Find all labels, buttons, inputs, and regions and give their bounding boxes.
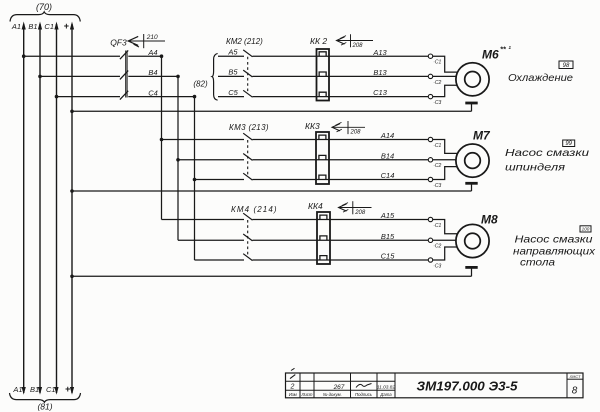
svg-text:+: + xyxy=(64,21,69,31)
svg-text:№ докум.: № докум. xyxy=(323,392,342,397)
svg-text:В4: В4 xyxy=(148,68,157,77)
svg-text:А13: А13 xyxy=(372,48,387,57)
svg-text:В1: В1 xyxy=(28,22,37,31)
svg-text:11.03.82: 11.03.82 xyxy=(377,384,396,390)
svg-text:ЗМ197.000 Э3-5: ЗМ197.000 Э3-5 xyxy=(417,379,519,393)
svg-text:КМ2 (212): КМ2 (212) xyxy=(226,37,263,46)
svg-text:КК3: КК3 xyxy=(305,121,320,131)
svg-text:С1: С1 xyxy=(44,22,54,31)
svg-text:КМ4 (214): КМ4 (214) xyxy=(231,205,278,214)
svg-text:направляющих: направляющих xyxy=(513,247,596,258)
svg-text:А1: А1 xyxy=(11,22,21,31)
svg-text:С4: С4 xyxy=(148,88,158,97)
svg-text:Лист: Лист xyxy=(300,392,312,397)
svg-text:А14: А14 xyxy=(380,131,394,140)
svg-text:шпинделя: шпинделя xyxy=(505,162,565,174)
svg-text:210: 210 xyxy=(146,34,158,41)
svg-text:(81): (81) xyxy=(37,402,52,412)
svg-text:С14: С14 xyxy=(381,171,395,180)
svg-text:100: 100 xyxy=(582,227,590,232)
svg-text:Насос смазки: Насос смазки xyxy=(505,147,589,159)
svg-text:(70): (70) xyxy=(36,2,52,12)
svg-text:·С1: ·С1 xyxy=(433,60,441,66)
svg-text:Подпись: Подпись xyxy=(355,392,373,397)
svg-text:8: 8 xyxy=(572,386,578,397)
svg-text:208: 208 xyxy=(352,43,364,49)
svg-text:·С1: ·С1 xyxy=(433,143,441,149)
svg-text:А1: А1 xyxy=(12,385,22,394)
svg-text:КК4: КК4 xyxy=(308,201,323,211)
svg-text:Дата: Дата xyxy=(379,392,392,397)
svg-text:·С2: ·С2 xyxy=(433,244,441,250)
svg-text:·С3: ·С3 xyxy=(433,183,441,189)
svg-text:А5: А5 xyxy=(227,48,238,57)
svg-text:·С2: ·С2 xyxy=(433,163,441,169)
svg-text:С15: С15 xyxy=(381,252,396,261)
svg-text:стола: стола xyxy=(520,258,556,269)
svg-text:М7: М7 xyxy=(473,129,491,143)
svg-text:С5: С5 xyxy=(228,88,238,97)
svg-text:·С3: ·С3 xyxy=(433,263,441,269)
svg-text:В5: В5 xyxy=(228,68,238,77)
svg-text:В14: В14 xyxy=(381,151,394,160)
svg-text:267: 267 xyxy=(333,384,345,391)
svg-text:·С3: ·С3 xyxy=(433,100,441,106)
svg-text:+: + xyxy=(65,384,70,394)
svg-text:·С1: ·С1 xyxy=(433,223,441,229)
svg-text:С1: С1 xyxy=(46,385,56,394)
svg-text:КМ3 (213): КМ3 (213) xyxy=(229,123,269,132)
svg-text:(82): (82) xyxy=(193,80,208,89)
svg-text:Насос смазки: Насос смазки xyxy=(515,235,594,246)
svg-text:208: 208 xyxy=(350,130,362,136)
svg-text:ЛИСТ: ЛИСТ xyxy=(569,374,581,379)
svg-text:М6: М6 xyxy=(482,48,499,62)
svg-text:КК 2: КК 2 xyxy=(310,36,327,46)
svg-text:В1: В1 xyxy=(30,385,39,394)
svg-text:208: 208 xyxy=(354,210,366,216)
svg-text:В13: В13 xyxy=(373,68,387,77)
svg-text:Охлаждение: Охлаждение xyxy=(508,72,573,84)
svg-text:98: 98 xyxy=(563,63,570,69)
svg-text:2: 2 xyxy=(290,384,295,391)
svg-text:Изм: Изм xyxy=(289,392,297,397)
svg-text:А4: А4 xyxy=(147,48,157,57)
svg-text:А15: А15 xyxy=(380,211,395,220)
svg-text:В15: В15 xyxy=(381,232,395,241)
svg-text:М8: М8 xyxy=(481,213,498,227)
svg-text:QF3: QF3 xyxy=(110,37,127,47)
svg-text:С13: С13 xyxy=(373,88,388,97)
svg-text:·С2: ·С2 xyxy=(433,80,441,86)
